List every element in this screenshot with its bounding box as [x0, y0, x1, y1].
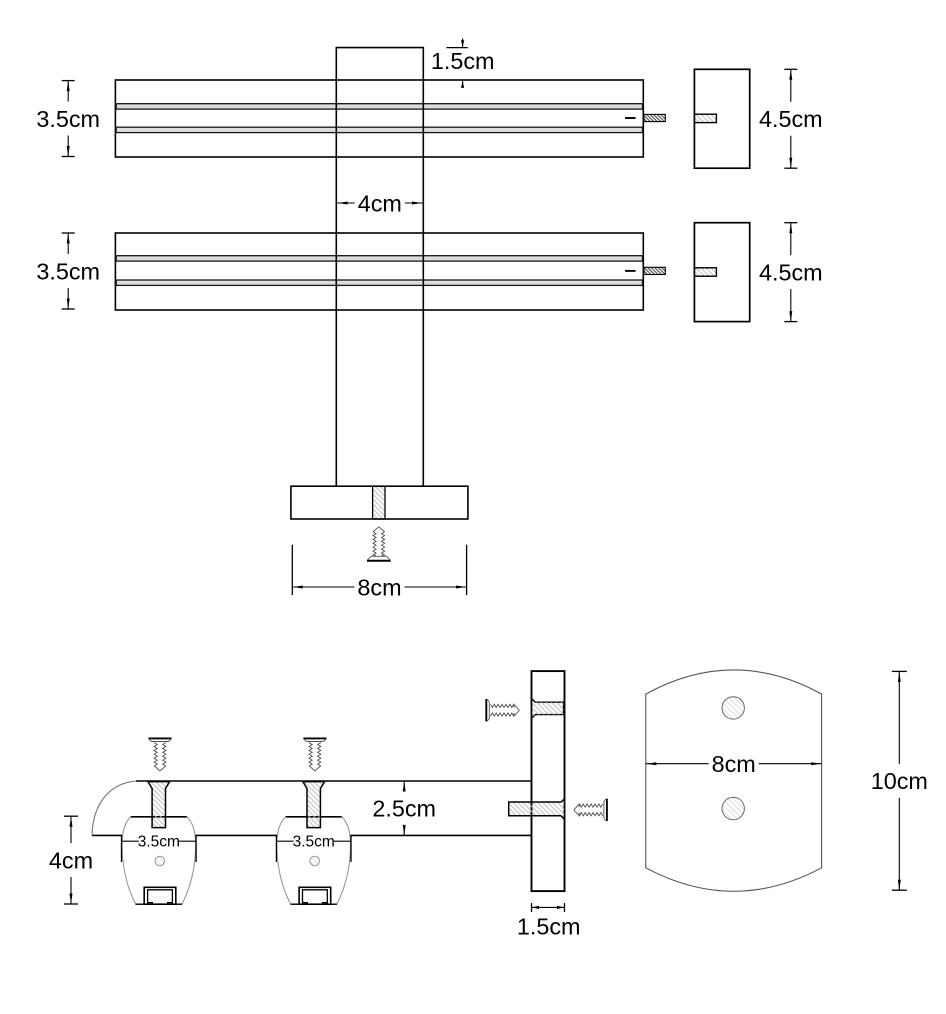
- svg-text:1.5cm: 1.5cm: [431, 48, 495, 74]
- svg-text:3.5cm: 3.5cm: [36, 258, 100, 284]
- svg-text:2.5cm: 2.5cm: [372, 796, 436, 822]
- svg-text:8cm: 8cm: [357, 574, 401, 600]
- svg-text:4cm: 4cm: [358, 190, 402, 216]
- svg-text:10cm: 10cm: [871, 768, 928, 794]
- svg-text:3.5cm: 3.5cm: [138, 834, 180, 851]
- svg-text:4.5cm: 4.5cm: [759, 260, 823, 286]
- svg-text:3.5cm: 3.5cm: [293, 834, 335, 851]
- svg-text:8cm: 8cm: [712, 751, 756, 777]
- svg-text:3.5cm: 3.5cm: [36, 106, 100, 132]
- svg-text:1.5cm: 1.5cm: [517, 914, 581, 940]
- svg-text:4.5cm: 4.5cm: [759, 106, 823, 132]
- svg-text:4cm: 4cm: [49, 847, 93, 873]
